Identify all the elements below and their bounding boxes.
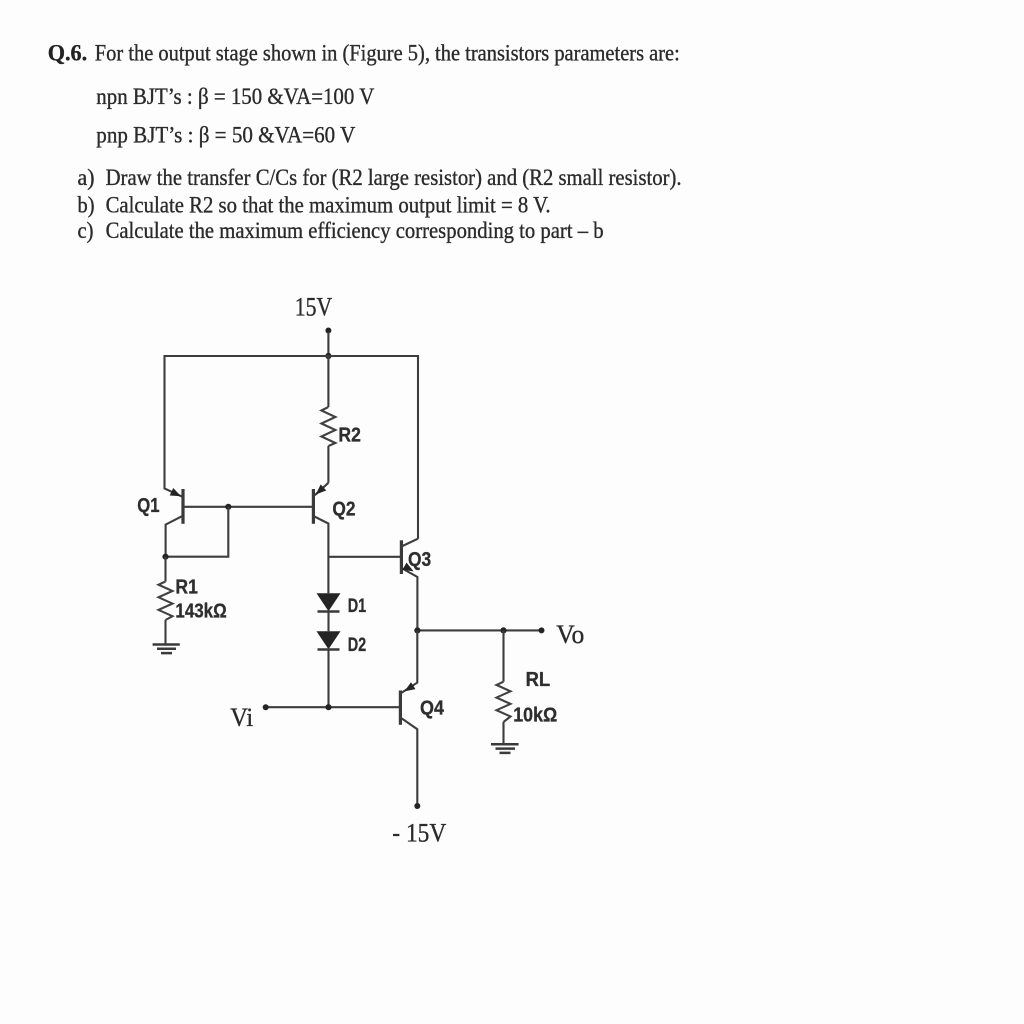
wire base Q1-Q2 <box>183 506 313 508</box>
svg-text:Q.6.: Q.6. <box>48 41 87 66</box>
terminal Vo dot <box>539 627 545 633</box>
diode D2 <box>317 631 341 649</box>
svg-text:- 15V: - 15V <box>392 818 446 847</box>
terminal Vi dot <box>263 704 269 710</box>
junction top rail <box>325 353 331 359</box>
transistor Q4 <box>399 691 402 725</box>
resistor R2 <box>327 356 329 407</box>
wire diode-connect loop <box>166 507 229 557</box>
svg-text:Calculate R2 so that the maxim: Calculate R2 so that the maximum output … <box>106 193 551 218</box>
svg-text:b): b) <box>78 193 95 218</box>
wire D2 to Vi node <box>327 650 329 708</box>
15V terminal dot <box>325 328 331 334</box>
wire Vo rail <box>417 629 541 631</box>
ground RL <box>491 744 519 753</box>
junction Vo left <box>414 627 420 633</box>
svg-text:Q4: Q4 <box>420 698 445 720</box>
wire top rail <box>165 355 419 357</box>
wire 15V terminal to rail <box>327 332 329 356</box>
svg-text:R2: R2 <box>338 425 361 447</box>
svg-text:RL: RL <box>526 669 551 691</box>
svg-text:c): c) <box>78 218 94 243</box>
junction base node <box>225 504 231 510</box>
svg-text:D1: D1 <box>348 596 367 617</box>
svg-text:143kΩ: 143kΩ <box>175 601 226 623</box>
junction collector node <box>162 554 168 560</box>
wire right drop to Q3 collector <box>417 355 419 539</box>
svg-text:a): a) <box>78 165 95 190</box>
junction RL branch <box>500 627 506 633</box>
svg-text:D2: D2 <box>348 635 367 656</box>
transistor Q2 <box>312 489 315 524</box>
wire Vi rail <box>266 706 400 708</box>
svg-text:Q3: Q3 <box>408 549 431 571</box>
ground R1 <box>153 645 180 654</box>
transistor Q1 <box>181 489 184 524</box>
svg-text:Q1: Q1 <box>137 495 159 517</box>
svg-text:Q2: Q2 <box>332 499 355 521</box>
svg-text:Vi: Vi <box>230 703 253 732</box>
svg-text:R1: R1 <box>175 577 198 599</box>
terminal -15V dot <box>414 803 420 809</box>
wire D1 to D2 <box>327 612 329 632</box>
svg-text:npn BJT’s : β = 150 &VA=100 V: npn BJT’s : β = 150 &VA=100 V <box>96 84 374 109</box>
diode D1 <box>317 593 341 611</box>
svg-text:Calculate the maximum efficien: Calculate the maximum efficiency corresp… <box>106 218 604 243</box>
junction Vi node <box>325 704 331 710</box>
transistor Q3 <box>400 540 403 574</box>
wire left drop to Q1 emitter <box>165 355 183 497</box>
svg-text:Vo: Vo <box>556 620 584 649</box>
svg-text:For the output stage shown in: For the output stage shown in (Figure 5)… <box>95 41 680 66</box>
svg-text:pnp BJT’s : β = 50 &VA=60 V: pnp BJT’s : β = 50 &VA=60 V <box>96 123 355 148</box>
svg-text:10kΩ: 10kΩ <box>513 705 557 727</box>
resistor RL <box>502 630 504 681</box>
svg-text:Draw the transfer C/Cs for (R2: Draw the transfer C/Cs for (R2 large res… <box>106 165 682 190</box>
svg-text:15V: 15V <box>295 293 333 322</box>
resistor R1 <box>164 557 166 582</box>
